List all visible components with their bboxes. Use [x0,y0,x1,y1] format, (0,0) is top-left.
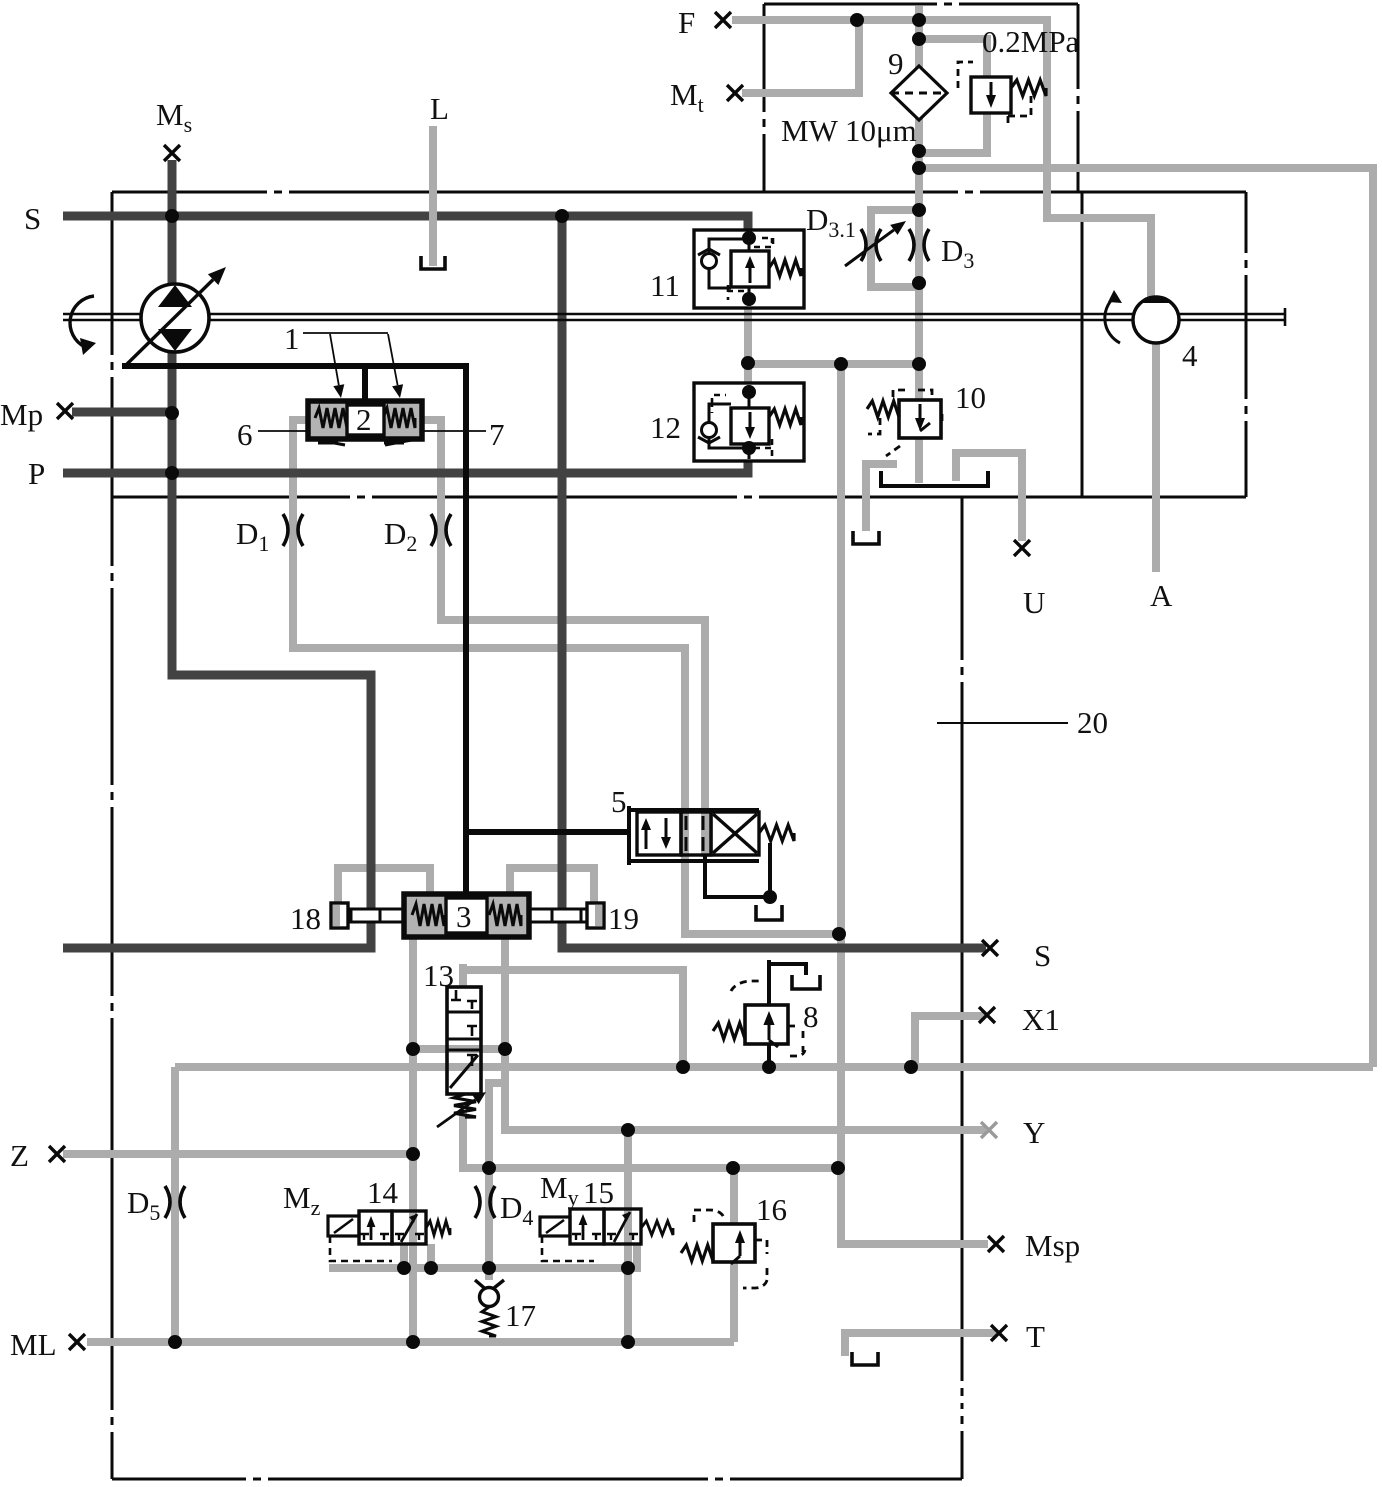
svg-text:19: 19 [608,901,639,936]
svg-text:Msp: Msp [1025,1228,1080,1263]
enclosure: pump 4 compartment divider [1081,192,1084,497]
svg-text:U: U [1023,585,1045,620]
wire: filter 9 column (down to valve 10 and tank) [915,6,923,74]
wire: X1 port link [915,1016,985,1065]
valve 5: 2-position solenoid poppet valve [629,806,794,865]
wire: port L drain line (drawn over S) [429,126,437,266]
svg-text:Mp: Mp [0,397,43,432]
junction node at (628,1268) [621,1261,635,1275]
svg-text:Y: Y [1023,1115,1045,1150]
port marker U [1014,540,1030,556]
valve 14: solenoid valve Mz [328,1211,450,1261]
svg-text:16: 16 [756,1192,787,1227]
svg-text:13: 13 [423,958,454,993]
junction node at (628,1130) [621,1123,635,1137]
junction node at (172,216) [165,209,179,223]
wire: valve 13 outlet to pilot drain rail y1168 [463,1110,841,1168]
junction node at (770,897) [763,890,777,904]
svg-text:MW 10μm: MW 10μm [781,113,917,148]
wire: valve 16 columns [730,1168,738,1226]
tank: port T drain [852,1352,878,1365]
junction node at (749,448) [742,441,756,455]
valve 15: solenoid valve My [540,1209,673,1261]
valve 11: pressure/flow compensator cartridge (top) [694,230,804,308]
port marker Ms [164,145,180,161]
junction node at (562,216) [555,209,569,223]
svg-text:14: 14 [367,1175,399,1210]
enclosure: lower block left border [111,192,114,1479]
wire: filtered oil line to far right down to X1 rail [919,168,1373,1067]
svg-text:20: 20 [1077,705,1108,740]
label leader 1 with arrows to valve 2 springs [303,333,403,398]
svg-text:12: 12 [650,410,681,445]
junction node at (919,364) [912,357,926,371]
valve 10: pressure reducing valve [867,390,942,456]
wire: Y-branch column through valve 15 down to ML [624,1130,632,1342]
tank: main return tank under valve 10 [881,471,988,486]
junction node at (919,210) [912,203,926,217]
port marker Z [49,1146,65,1162]
wire: port Mt line joining F line [742,20,859,93]
port marker F [715,12,731,28]
port marker Msp [988,1236,1004,1252]
svg-text:S: S [24,201,41,236]
wire: valve 2 pilot stub [362,366,368,401]
svg-text:0.2MPa: 0.2MPa [982,24,1080,59]
orifice D5 [165,1186,170,1218]
wire: Ms/Mp gauge column down and across to port P (bottom) [63,160,371,948]
svg-text:1: 1 [284,321,300,356]
wire: valve 3 B-port column, jog and Y line [505,937,986,1130]
wire: port P line up into valve 12 [63,459,748,473]
shaft: pump drive shaft [63,308,1285,326]
svg-text:D1: D1 [236,516,269,556]
orifice D2 [431,514,436,546]
junction node at (841,364) [834,357,848,371]
svg-text:ML: ML [10,1327,57,1362]
piston 19 (right stroking piston) [529,903,604,928]
junction node at (749,392) [742,385,756,399]
wire: pump 1 control pressure line to valves 2/3/5 [122,366,466,896]
wire: port Z line [63,1150,413,1158]
junction node at (172,413) [165,406,179,420]
junction node at (769,1067) [762,1060,776,1074]
valve 2: proportional pressure reducing pilot valve [308,401,422,445]
svg-text:Mz: Mz [283,1180,321,1220]
port marker Mp [57,403,73,419]
svg-text:5: 5 [611,784,627,819]
enclosure: main manifold block 20 top section frame [112,192,1246,497]
junction node at (857,20) [850,13,864,27]
svg-text:10: 10 [955,380,986,415]
junction node at (919,168) [912,161,926,175]
wire: valve 13 inlet from drain gallery [459,964,467,988]
svg-text:6: 6 [237,417,253,452]
svg-text:A: A [1150,578,1173,613]
svg-text:15: 15 [583,1175,614,1210]
svg-text:Ms: Ms [156,97,192,137]
valve 3: stroking / servo control valve with centering springs [404,894,529,937]
svg-text:D5: D5 [127,1185,160,1225]
svg-text:17: 17 [505,1298,536,1333]
svg-text:7: 7 [489,417,505,452]
junction node at (749,299) [742,292,756,306]
wire: 0.2MPa relief bypass around filter [915,39,987,79]
junction node at (413,1154) [406,1147,420,1161]
svg-text:3: 3 [456,899,472,934]
svg-text:T: T [1026,1319,1045,1354]
svg-text:P: P [28,456,45,491]
junction node at (839,934) [832,927,846,941]
junction node at (413,1049) [406,1042,420,1056]
svg-text:Mt: Mt [670,77,704,117]
piston 18 (left stroking piston) [331,903,404,928]
orifice D1 [283,514,288,546]
port marker X1 [979,1007,995,1023]
wire: tank to port U [956,453,1022,541]
junction node at (175,1342) [168,1335,182,1349]
port marker Y [981,1122,997,1138]
valve 16: pressure relief valve [681,1210,767,1288]
junction node at (489,1168) [482,1161,496,1175]
port marker T [991,1325,1007,1341]
wire: long vertical rail (valve10 junction down to Msp) [841,364,988,1244]
junction node at (431,1268) [424,1261,438,1275]
svg-text:L: L [430,91,449,126]
wire: port S suction line into valve 11 [63,216,748,232]
junction node at (413,1342) [406,1335,420,1349]
junction node at (919,39) [912,32,926,46]
wire: valve 8 vent line to tank [769,960,806,1007]
wire: port ML line [87,1338,734,1346]
junction node at (628,1342) [621,1335,635,1349]
junction node at (749,238) [742,231,756,245]
junction node at (172,473) [165,466,179,480]
port marker ML [69,1334,85,1350]
svg-text:D4: D4 [500,1190,533,1230]
valve 8: pilot relief valve [713,981,805,1056]
wire: valve 13 crossover [413,1045,505,1053]
wire: valve 8 outlet to X1 rail [767,1042,771,1067]
svg-text:My: My [540,1170,579,1210]
tank: valve 8 vent drain [792,975,820,989]
port marker S right [982,940,998,956]
orifice D4 [475,1186,480,1218]
wire: D1 branch from valve 2 to valve 5 and down to vertical rail [293,420,837,934]
junction node at (919,151) [912,144,926,158]
wire: valve 11 outlet link through shaft to valve 12 and right rail [744,308,752,383]
wire: valve 5 solenoid drain to tank [705,843,770,897]
junction node at (489,1268) [482,1261,496,1275]
pump U4: charge pump 4 [1105,290,1179,343]
junction node at (404,1268) [397,1261,411,1275]
junction node at (733,1168) [726,1161,740,1175]
valve V9b: 0.2MPa low pressure relief valve [958,62,1046,126]
wire: valve 3 A-port column down to ML [409,937,417,1342]
wire: port F supply line to pump 4 inlet [732,20,1151,299]
wire: D2 branch from valve 2 to valve 5 [420,420,705,857]
svg-text:D3: D3 [941,233,974,273]
svg-text:11: 11 [650,268,680,303]
svg-text:Z: Z [10,1138,29,1173]
junction node at (748,363) [741,356,755,370]
wire: valve 10 spring drain to tank [866,464,897,531]
tank: valve 5 pilot drain [756,905,782,920]
junction node at (911,1067) [904,1060,918,1074]
svg-text:F: F [678,5,695,40]
junction node at (683,1067) [676,1060,690,1074]
enclosure: filter sub-block frame (top) [764,4,1078,192]
junction node at (919,283) [912,276,926,290]
filter 9: suction filter MW 10um [891,66,947,120]
svg-text:8: 8 [803,999,819,1034]
pump U1: variable displacement main pump 1 [70,267,226,364]
svg-text:X1: X1 [1022,1002,1060,1037]
wire: solenoid valves drain gallery y1268 [329,1244,637,1268]
enclosure: lower block right border [961,497,964,1479]
orifice D3 [909,229,914,261]
valve 12: pressure/flow compensator cartridge (bottom) [694,383,804,461]
svg-text:9: 9 [888,46,904,81]
wire: S branch rail down to port S (right) [562,216,986,948]
junction node at (919,20) [912,13,926,27]
wire: port Mp stub [72,408,176,417]
junction node at (838,1168) [831,1161,845,1175]
label leader 6-7 [258,430,486,432]
wire: D3 / D3.1 bypass loop [871,210,919,287]
wire: port T line to tank [845,1333,996,1356]
wire: valve 3 right spring cap loop [510,868,594,907]
enclosure: lower block bottom border [112,1478,962,1481]
tank: port L drain [421,256,445,269]
svg-text:2: 2 [356,402,372,437]
callout leader 20 [937,722,1068,724]
wire: X1 rail across block and D5 column [175,1063,1373,1071]
junction node at (505,1049) [498,1042,512,1056]
wire: valve 3 left spring cap loop [338,868,430,907]
tank: valve 10 spring drain [853,531,879,544]
svg-text:18: 18 [290,901,321,936]
wire: pump 4 outlet to port A [1152,341,1160,572]
svg-text:S: S [1034,938,1051,973]
orifice D3.1 (adjustable) [845,221,906,266]
svg-text:4: 4 [1182,338,1198,373]
port marker Mt [727,85,743,101]
svg-text:D2: D2 [384,516,417,556]
check valve 17 with spring [475,1280,504,1336]
valve 13: flow control (bleed) valve [437,987,486,1127]
svg-text:D3.1: D3.1 [806,202,856,242]
